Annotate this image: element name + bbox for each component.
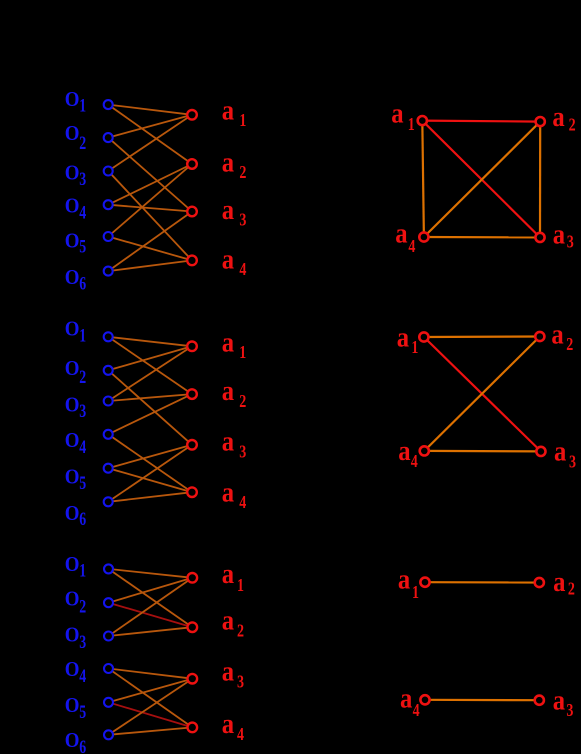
svg-text:O: O [65,658,80,681]
svg-text:5: 5 [79,701,86,722]
svg-text:1: 1 [411,339,418,358]
wire edge O6-a4 (bipartite graph 2) [108,492,192,502]
label O2 (bipartite graph 2) [65,357,86,388]
label O6 (bipartite graph 2) [65,502,86,530]
svg-text:1: 1 [239,344,246,363]
svg-text:O: O [65,553,80,576]
wire edge O5-a4 (bipartite graph 1) [108,237,192,261]
wire edge O2-a3 (bipartite graph 1) [108,138,192,212]
wire edge O1-a2 (bipartite graph 1) [108,105,192,164]
svg-text:a: a [222,655,235,687]
wire edge O5-a3 (bipartite graph 3) [109,679,193,703]
wire edge O6-a4 (bipartite graph 1) [108,260,192,271]
node a4 (conflict graph 2) [420,446,429,455]
node O2 (bipartite graph 1) [104,133,113,142]
node a2 (conflict graph 3) [535,578,544,587]
label a4 (conflict graph 1) [395,217,415,257]
svg-text:a: a [554,435,567,467]
label O1 (bipartite graph 1) [65,88,86,116]
node O6 (bipartite graph 2) [104,497,113,506]
svg-text:3: 3 [239,443,246,462]
label O6 (bipartite graph 1) [65,266,86,294]
svg-text:a: a [395,217,408,249]
label O6 (bipartite graph 3) [65,729,86,754]
wire edge a4-a3 (conflict graph 1) [424,236,540,239]
wire edge O5-a4 (bipartite graph 3) [109,702,193,727]
svg-text:4: 4 [237,726,244,745]
label a2 (bipartite graph 1) [222,145,247,182]
label a3 (bipartite graph 2) [222,425,247,462]
wire edge O2-a1 (bipartite graph 1) [108,115,192,138]
node a1 (bipartite graph 1) [187,110,197,120]
node a2 (conflict graph 1) [536,117,545,126]
wire edge a1-a2 (conflict graph 2) [424,335,540,338]
node a3 (conflict graph 2) [536,447,545,456]
wire edge O6-a4 (bipartite graph 3) [109,727,193,734]
label a2 (conflict graph 2) [551,318,573,355]
node O3 (bipartite graph 3) [104,632,113,641]
node a1 (bipartite graph 2) [187,342,197,352]
svg-text:a: a [222,374,235,406]
svg-text:a: a [553,683,566,715]
label a3 (conflict graph 3) [553,683,574,720]
svg-text:1: 1 [79,325,86,346]
label O1 (bipartite graph 3) [65,553,86,581]
svg-text:O: O [65,266,80,289]
node O1 (bipartite graph 3) [104,564,113,573]
svg-text:4: 4 [79,665,86,686]
label O1 (bipartite graph 2) [65,317,86,346]
label a4 (bipartite graph 1) [222,243,247,280]
node O5 (bipartite graph 3) [104,698,113,707]
wire edge O4-a2 (bipartite graph 2) [108,394,192,434]
wire edge O3-a1 (bipartite graph 1) [108,115,192,171]
svg-text:2: 2 [568,580,575,599]
wire edge O1-a1 (bipartite graph 3) [109,569,193,578]
svg-text:2: 2 [79,132,86,153]
wire edge O5-a4 (bipartite graph 2) [108,468,192,492]
svg-text:O: O [65,88,80,111]
wire edge O2-a1 (bipartite graph 3) [109,578,193,603]
svg-text:3: 3 [569,453,576,472]
label a4 (conflict graph 3) [400,682,420,721]
svg-text:O: O [65,229,80,252]
svg-text:3: 3 [239,211,246,230]
label a2 (conflict graph 3) [553,565,575,599]
svg-text:4: 4 [239,261,246,280]
svg-text:a: a [222,243,235,275]
node O6 (bipartite graph 3) [104,730,113,739]
svg-text:4: 4 [411,453,418,472]
svg-text:O: O [65,317,80,340]
wire edge O2-a1 (bipartite graph 2) [108,346,192,370]
node a2 (bipartite graph 1) [187,159,197,169]
svg-text:O: O [65,465,80,488]
svg-text:a: a [222,145,235,177]
node a2 (bipartite graph 3) [188,622,198,632]
svg-text:4: 4 [408,238,415,257]
svg-text:2: 2 [237,622,244,641]
svg-text:2: 2 [79,366,86,387]
wire edge O4-a3 (bipartite graph 1) [108,205,192,212]
label O5 (bipartite graph 1) [65,229,86,257]
svg-text:O: O [65,162,80,185]
svg-text:1: 1 [79,95,86,116]
svg-text:a: a [222,425,235,457]
label a4 (bipartite graph 2) [222,476,247,513]
label O2 (bipartite graph 3) [65,587,86,617]
svg-text:2: 2 [566,336,573,355]
svg-text:a: a [398,563,411,595]
wire edge O4-a3 (bipartite graph 3) [109,669,193,679]
svg-text:1: 1 [412,583,419,602]
svg-text:3: 3 [79,400,86,421]
label a2 (bipartite graph 2) [222,374,247,411]
svg-text:O: O [65,429,80,452]
svg-text:2: 2 [79,596,86,617]
svg-text:a: a [222,707,235,739]
wire edge O3-a2 (bipartite graph 3) [109,627,193,636]
svg-text:1: 1 [408,116,415,135]
node a1 (conflict graph 3) [420,578,429,587]
svg-text:6: 6 [79,736,86,754]
node a3 (bipartite graph 1) [187,207,197,217]
wire edge a1-a2 (conflict graph 3) [425,581,539,583]
wire edge O6-a3 (bipartite graph 3) [109,679,193,735]
label O4 (bipartite graph 1) [65,194,86,223]
wire edge O1-a2 (bipartite graph 3) [109,569,193,627]
label O3 (bipartite graph 1) [65,162,86,190]
wire edge a1-a4 (conflict graph 1) [422,121,424,237]
node O5 (bipartite graph 2) [104,464,113,473]
svg-text:a: a [391,97,404,129]
svg-text:1: 1 [237,576,244,595]
svg-text:a: a [222,94,235,126]
svg-text:5: 5 [79,236,86,257]
label a2 (conflict graph 1) [552,100,575,135]
label O5 (bipartite graph 2) [65,465,86,493]
label a3 (bipartite graph 1) [222,193,247,230]
node a4 (bipartite graph 2) [187,487,197,497]
svg-text:3: 3 [79,168,86,189]
wire edge O4-a2 (bipartite graph 1) [108,164,192,205]
svg-text:2: 2 [569,116,576,135]
node O6 (bipartite graph 1) [104,267,113,276]
svg-text:a: a [222,604,235,636]
node O1 (bipartite graph 1) [104,100,113,109]
node a4 (bipartite graph 3) [188,723,198,733]
node a2 (conflict graph 2) [535,332,544,341]
svg-text:a: a [552,100,565,132]
label O3 (bipartite graph 3) [65,624,86,653]
wire edge O6-a3 (bipartite graph 1) [108,212,192,272]
svg-text:O: O [65,502,80,525]
node O4 (bipartite graph 3) [104,664,113,673]
label a3 (conflict graph 2) [554,435,576,472]
node a2 (bipartite graph 2) [187,389,197,399]
svg-text:3: 3 [567,233,574,252]
svg-text:3: 3 [237,673,244,692]
wire edge a4-a2 (conflict graph 1) [424,122,540,237]
node a4 (bipartite graph 1) [187,256,197,266]
svg-text:4: 4 [239,494,246,513]
svg-text:2: 2 [239,392,246,411]
node a3 (bipartite graph 3) [188,674,198,684]
label O4 (bipartite graph 3) [65,658,86,686]
node O2 (bipartite graph 2) [104,366,113,375]
wire edge a4-a3 (conflict graph 3) [425,699,539,702]
label a1 (conflict graph 1) [391,97,415,135]
svg-text:O: O [65,624,80,647]
node O4 (bipartite graph 2) [104,430,113,439]
svg-text:3: 3 [79,631,86,652]
node a1 (conflict graph 1) [418,116,427,125]
svg-text:2: 2 [239,164,246,183]
wire edge O2-a2 (bipartite graph 3) [109,603,193,628]
svg-text:O: O [65,357,80,380]
svg-text:6: 6 [79,273,86,294]
svg-text:1: 1 [239,112,246,131]
label a1 (bipartite graph 1) [222,94,247,131]
label O4 (bipartite graph 2) [65,429,86,458]
node O4 (bipartite graph 1) [104,200,113,209]
wire edge O3-a2 (bipartite graph 2) [108,394,192,401]
wire edge O6-a3 (bipartite graph 2) [108,445,192,502]
wire edge O3-a1 (bipartite graph 2) [108,346,192,401]
wire edge O1-a1 (bipartite graph 1) [108,105,192,115]
label O3 (bipartite graph 2) [65,393,86,421]
node a3 (conflict graph 1) [535,233,544,242]
svg-text:6: 6 [79,508,86,529]
svg-text:O: O [65,194,80,217]
node a4 (conflict graph 3) [420,695,429,704]
wire edge a4-a2 (conflict graph 2) [424,337,540,451]
wire edge O1-a1 (bipartite graph 2) [108,337,192,347]
label a3 (conflict graph 1) [553,217,574,252]
svg-text:a: a [551,318,564,350]
wire edge O3-a1 (bipartite graph 3) [109,578,193,636]
svg-text:a: a [222,557,235,589]
label a4 (conflict graph 2) [398,434,418,472]
svg-text:O: O [65,122,80,145]
svg-text:O: O [65,393,80,416]
svg-text:a: a [397,320,410,352]
wire edge O2-a3 (bipartite graph 2) [108,370,192,445]
svg-text:a: a [222,326,235,358]
wire edge O5-a2 (bipartite graph 1) [108,164,192,237]
svg-text:4: 4 [413,701,420,720]
node a1 (conflict graph 2) [419,332,428,341]
node a3 (conflict graph 3) [535,696,544,705]
svg-text:1: 1 [79,560,86,581]
svg-text:a: a [553,217,566,249]
svg-text:3: 3 [566,702,573,721]
wire edge a1-a3 (conflict graph 1) [422,121,540,238]
wire edge O4-a4 (bipartite graph 3) [109,669,193,728]
label a1 (bipartite graph 2) [222,326,247,363]
svg-text:O: O [65,729,80,752]
node a4 (conflict graph 1) [419,232,428,241]
wire edge O3-a4 (bipartite graph 1) [108,171,192,260]
svg-text:a: a [553,565,566,597]
node O5 (bipartite graph 1) [104,232,113,241]
label a1 (bipartite graph 3) [222,557,244,595]
wire edge a4-a3 (conflict graph 2) [424,450,541,453]
svg-text:4: 4 [79,436,86,457]
svg-text:a: a [398,434,411,466]
svg-text:O: O [65,694,80,717]
label O5 (bipartite graph 3) [65,694,86,722]
svg-text:4: 4 [79,201,86,222]
label a2 (bipartite graph 3) [222,604,244,641]
node a1 (bipartite graph 3) [188,573,198,583]
node a3 (bipartite graph 2) [187,440,197,450]
wire edge a2-a3 (conflict graph 1) [539,122,541,238]
label O2 (bipartite graph 1) [65,122,86,153]
svg-text:a: a [222,193,235,225]
node O2 (bipartite graph 3) [104,598,113,607]
svg-text:a: a [400,682,413,714]
label a3 (bipartite graph 3) [222,655,244,692]
label a4 (bipartite graph 3) [222,707,244,745]
node O1 (bipartite graph 2) [104,332,113,341]
svg-text:5: 5 [79,472,86,493]
wire edge O4-a4 (bipartite graph 2) [108,434,192,492]
wire edge O1-a2 (bipartite graph 2) [108,337,192,394]
wire edge a1-a2 (conflict graph 1) [422,121,540,122]
label a1 (conflict graph 2) [397,320,419,357]
svg-text:O: O [65,587,80,610]
node O3 (bipartite graph 1) [104,167,113,176]
svg-text:a: a [222,476,235,508]
wire edge O5-a3 (bipartite graph 2) [108,445,192,468]
node O3 (bipartite graph 2) [104,397,113,406]
wire edge a1-a3 (conflict graph 2) [424,337,541,451]
label a1 (conflict graph 3) [398,563,419,602]
